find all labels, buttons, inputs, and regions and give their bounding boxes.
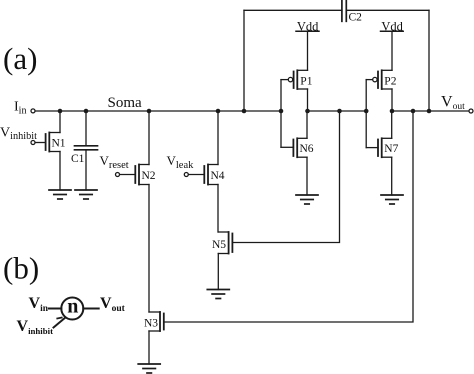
wire inverter1 gate line <box>280 80 282 148</box>
ground under N6 <box>296 195 318 204</box>
svg-text:N7: N7 <box>384 143 398 155</box>
Vout label <box>100 295 126 314</box>
Vinhibit terminal <box>31 141 35 145</box>
Vdd symbol left <box>296 20 319 71</box>
wire N5 gate feedback from inverter1 output <box>232 111 339 243</box>
Vout label <box>441 93 465 112</box>
neuron symbol n label <box>67 296 78 318</box>
svg-text:Vinhibit: Vinhibit <box>17 318 54 336</box>
neuron symbol circle <box>61 298 83 320</box>
node junction C1 top <box>84 109 89 114</box>
P1 gate bubble <box>288 77 292 81</box>
Vdd symbol right <box>381 20 404 71</box>
svg-text:N3: N3 <box>144 318 158 330</box>
ground under N1 <box>49 190 71 199</box>
transistor N2 <box>120 111 156 185</box>
transistor N3 <box>144 312 164 364</box>
node junction N1 drain <box>58 109 63 114</box>
transistor N6 <box>281 111 314 195</box>
node Soma label <box>108 95 143 111</box>
node junction P2/N7 drains <box>390 109 395 114</box>
wire Vout rail <box>392 110 469 112</box>
Iin terminal <box>31 109 35 113</box>
svg-text:P2: P2 <box>384 76 396 88</box>
wire N3 gate feedback from Vout <box>164 111 413 322</box>
svg-text:N5: N5 <box>212 239 226 251</box>
Vinhibit label <box>0 126 37 143</box>
wire inverter1 output rail <box>308 110 367 112</box>
wire Soma rail <box>35 110 281 112</box>
svg-text:N2: N2 <box>142 170 156 182</box>
Vout lead <box>83 308 98 310</box>
ground under C1 <box>75 190 97 199</box>
panel label (b) <box>3 251 39 286</box>
capacitor C1 <box>71 111 98 190</box>
svg-text:Vleak: Vleak <box>167 153 195 171</box>
wire inverter2 gate line <box>365 80 367 148</box>
Vin lead <box>49 308 61 310</box>
transistor N5 <box>212 232 232 290</box>
svg-text:C1: C1 <box>71 153 85 165</box>
Vinhibit label <box>17 318 54 336</box>
svg-text:(a): (a) <box>3 41 37 76</box>
node junction N4 drain <box>216 109 221 114</box>
transistor N7 <box>366 111 398 195</box>
svg-text:Iin: Iin <box>14 100 26 117</box>
node junction C2 left leg <box>242 109 247 114</box>
Vleak label <box>167 153 195 171</box>
svg-text:(b): (b) <box>3 251 39 286</box>
inhibitory input line <box>54 318 65 328</box>
svg-text:C2: C2 <box>349 11 363 23</box>
inhibitory synapse dash <box>57 317 61 320</box>
svg-text:N4: N4 <box>211 170 225 182</box>
wire N4 source to N5 drain <box>217 185 219 233</box>
node junction P1/N6 drains <box>305 109 310 114</box>
Vleak terminal <box>184 173 188 177</box>
P2 gate bubble <box>373 77 377 81</box>
svg-text:n: n <box>67 296 78 318</box>
svg-text:Soma: Soma <box>108 95 143 111</box>
wire C2 right leg down to Vout <box>428 10 430 111</box>
node junction inverter1 input <box>279 109 284 114</box>
svg-text:Vout: Vout <box>441 93 465 112</box>
wire C2 left leg down to Soma <box>243 10 245 111</box>
transistor N1 <box>35 111 66 190</box>
node junction N2 drain <box>147 109 152 114</box>
wire N2 source to N3 drain <box>148 185 150 313</box>
svg-text:Vreset: Vreset <box>100 153 129 171</box>
transistor P1 <box>281 70 313 111</box>
capacitor C2 <box>244 1 429 24</box>
svg-text:Vinhibit: Vinhibit <box>0 126 37 143</box>
transistor N4 <box>188 111 225 185</box>
Vout terminal <box>469 109 473 113</box>
svg-text:Vin: Vin <box>29 295 49 314</box>
ground under N3 <box>138 364 160 373</box>
panel label (a) <box>3 41 37 76</box>
svg-text:N1: N1 <box>52 137 66 149</box>
transistor P2 <box>366 70 396 111</box>
Iin input label <box>14 100 26 117</box>
Vreset label <box>100 153 129 171</box>
svg-text:N6: N6 <box>300 143 314 155</box>
Vreset terminal <box>116 173 120 177</box>
svg-text:Vout: Vout <box>100 295 126 314</box>
node junction C2 right leg <box>427 109 432 114</box>
ground under N5 <box>207 290 229 299</box>
ground under N7 <box>381 195 403 204</box>
node junction inverter2 input <box>364 109 369 114</box>
node junction N3 gate feedback <box>411 109 416 114</box>
node junction N5 gate feedback <box>337 109 342 114</box>
svg-text:P1: P1 <box>300 76 312 88</box>
Vin label <box>29 295 49 314</box>
